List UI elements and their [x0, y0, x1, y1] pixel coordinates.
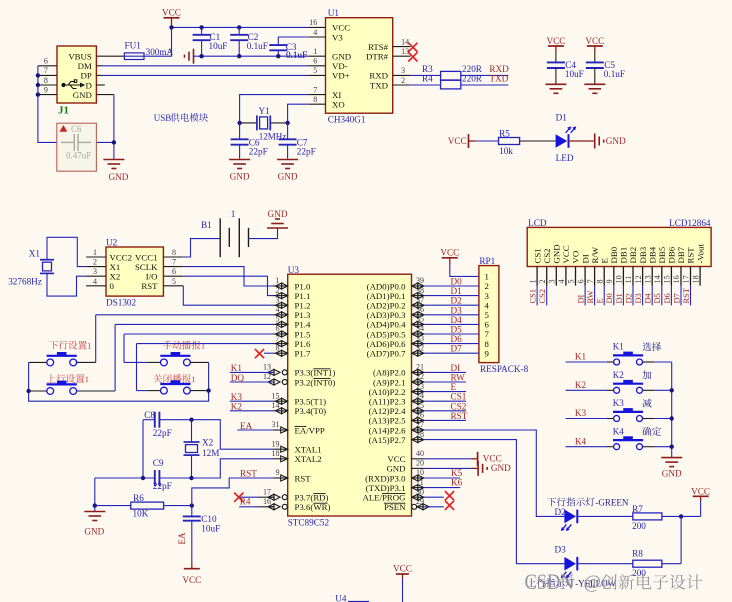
svg-text:P1.5: P1.5 [295, 329, 311, 339]
wire net DI [424, 371, 466, 373]
svg-text:10uF: 10uF [201, 524, 220, 534]
wire net CS2 (LCD pin 2) [546, 286, 548, 306]
junction pin8 [36, 83, 40, 87]
svg-text:1: 1 [87, 341, 91, 351]
svg-text:D7: D7 [451, 344, 463, 354]
junction button common left [26, 389, 30, 393]
svg-text:RW: RW [451, 373, 466, 383]
wire net EA to EA/VPP [237, 429, 273, 431]
svg-text:7: 7 [485, 329, 490, 339]
LED D1 [556, 126, 577, 147]
junction C1 bottom [199, 54, 203, 58]
svg-text:GND: GND [662, 469, 682, 479]
junction C1 top [199, 25, 203, 29]
svg-text:2: 2 [93, 258, 97, 267]
junction VCC rail / fuse [169, 25, 173, 29]
svg-text:J1: J1 [58, 105, 69, 117]
svg-text:6: 6 [313, 57, 317, 66]
resistor R4 220R [441, 80, 461, 89]
svg-text:XTAL2: XTAL2 [295, 454, 322, 464]
svg-text:P3.5(T1): P3.5(T1) [295, 397, 327, 407]
svg-text:19: 19 [272, 439, 280, 448]
switch 下行设置1 [49, 341, 87, 350]
junction K3 [670, 416, 674, 420]
svg-text:(A10)P2.2: (A10)P2.2 [369, 387, 406, 397]
svg-text:CS2: CS2 [542, 248, 552, 263]
svg-text:LCD: LCD [528, 218, 547, 228]
svg-text:21: 21 [416, 363, 424, 372]
svg-text:1: 1 [85, 374, 89, 384]
svg-text:RXD: RXD [369, 71, 388, 81]
wire net K6 [424, 487, 460, 489]
wire net D4 [424, 323, 479, 325]
capacitor C6 0.47uF (not fitted, grey box) [57, 123, 97, 171]
svg-text:33: 33 [416, 334, 424, 343]
svg-text:(RXD)P3.0: (RXD)P3.0 [365, 473, 406, 483]
svg-text:VCC: VCC [387, 454, 405, 464]
svg-text:DI: DI [577, 294, 586, 303]
label 下行指示灯-GREEN [547, 497, 594, 506]
wire P2.7 to D3 [424, 440, 564, 564]
no-connect X on P1.7 [264, 352, 274, 354]
svg-text:K4: K4 [575, 436, 587, 446]
svg-text:DI: DI [580, 254, 590, 263]
wire net D4 (LCD pin 13) [651, 286, 653, 306]
svg-text:U3: U3 [288, 265, 300, 275]
svg-text:6: 6 [485, 320, 490, 330]
svg-text:D1: D1 [615, 293, 624, 303]
svg-text:22pF: 22pF [153, 481, 172, 491]
J1 USB icon [62, 80, 84, 89]
svg-text:200: 200 [632, 521, 646, 531]
svg-text:RTS#: RTS# [368, 42, 389, 52]
svg-text:K1: K1 [231, 363, 243, 373]
svg-text:D6: D6 [663, 293, 672, 303]
power symbol VCC (pin40) [477, 452, 479, 466]
svg-text:1: 1 [313, 47, 317, 56]
svg-text:2: 2 [538, 279, 547, 283]
no-connect X on ALE/PROG [445, 491, 454, 500]
svg-text:22pF: 22pF [297, 147, 316, 157]
svg-text:36: 36 [416, 305, 424, 314]
wire net D6 (LCD pin 15) [670, 286, 672, 306]
svg-text:R3: R3 [422, 64, 433, 74]
svg-text:U2: U2 [106, 238, 118, 248]
junction R6 left / GND [93, 503, 97, 507]
wire C8 right to XTAL1 [192, 420, 274, 450]
svg-text:D0: D0 [451, 277, 463, 287]
svg-text:16: 16 [263, 497, 271, 506]
ground GND (D1) [595, 134, 604, 149]
wire TXD [410, 84, 440, 86]
svg-text:DB7: DB7 [676, 246, 686, 263]
capacitor C5 0.1uF [585, 36, 604, 46]
svg-text:37: 37 [416, 295, 424, 304]
ground GND (C7) [277, 160, 298, 169]
svg-text:GND: GND [108, 172, 128, 182]
wire key common bus to GND [671, 362, 673, 458]
wire J1 VBUS to fuse [96, 55, 124, 57]
svg-text:GND: GND [606, 136, 626, 146]
svg-text:RST: RST [141, 281, 158, 291]
svg-text:C9: C9 [153, 458, 164, 468]
wire C8 left down [142, 420, 144, 478]
svg-text:5: 5 [172, 277, 176, 286]
svg-text:1: 1 [276, 276, 280, 285]
wire P1.5 to 手动 switch [124, 333, 274, 335]
svg-text:-Vout: -Vout [695, 244, 705, 264]
svg-text:6: 6 [172, 267, 176, 276]
svg-text:LED: LED [556, 153, 574, 163]
capacitor C10 10uF [191, 506, 193, 517]
svg-text:VCC1: VCC1 [135, 252, 158, 262]
svg-text:P1.2: P1.2 [295, 301, 311, 311]
wire D3 to R8 [577, 563, 633, 565]
svg-text:R5: R5 [499, 128, 510, 138]
svg-text:20: 20 [416, 459, 424, 468]
wire GND pin20 [424, 467, 472, 469]
svg-text:8: 8 [276, 343, 280, 352]
svg-text:GND: GND [268, 209, 288, 219]
svg-text:SCLK: SCLK [135, 262, 158, 272]
svg-text:17: 17 [682, 275, 691, 283]
wire net CS1 (LCD pin 1) [536, 286, 538, 306]
svg-text:(A9)P2.1: (A9)P2.1 [373, 377, 406, 387]
svg-text:5: 5 [276, 315, 280, 324]
wire J1 GND down [96, 94, 114, 96]
svg-text:D0: D0 [605, 293, 614, 303]
svg-text:RW: RW [586, 290, 595, 303]
svg-text:VD-: VD- [332, 61, 348, 71]
crystal X1 32768Hz [40, 260, 54, 274]
switch K3 减 [566, 418, 608, 420]
wire C10 to VCC with EA label [191, 521, 193, 563]
wire P1.6 to 关闭 switch [137, 343, 274, 345]
svg-text:7: 7 [586, 279, 595, 283]
wire net D6 [424, 343, 479, 345]
svg-text:GND: GND [84, 527, 104, 537]
svg-text:(AD2)P0.2: (AD2)P0.2 [367, 301, 406, 311]
svg-text:0: 0 [110, 281, 115, 291]
svg-text:8: 8 [172, 248, 176, 257]
svg-text:C10: C10 [201, 514, 217, 524]
wire R3 out [461, 74, 509, 76]
svg-text:14: 14 [401, 37, 409, 46]
wire U2 VCC1 to B1 [183, 239, 220, 257]
svg-text:13: 13 [263, 363, 271, 372]
svg-text:(AD5)P0.5: (AD5)P0.5 [367, 329, 406, 339]
wire net D5 (LCD pin 14) [661, 286, 663, 306]
resistor R7 200 [633, 513, 662, 520]
wire VCC rail [172, 26, 309, 28]
svg-text:@: @ [584, 572, 602, 593]
svg-text:1: 1 [231, 209, 236, 219]
svg-text:(A14)P2.6: (A14)P2.6 [369, 425, 406, 435]
svg-text:TXD: TXD [489, 73, 508, 83]
no-connect X on PSEN [445, 501, 454, 510]
wire P2.6 to D2 [424, 430, 564, 516]
svg-text:VCC: VCC [585, 36, 604, 46]
resistor pack RP1 box [479, 266, 499, 363]
svg-text:0.1uF: 0.1uF [286, 50, 307, 60]
wire R6 right [164, 505, 192, 507]
svg-text:R4: R4 [240, 497, 251, 507]
wire net D7 [424, 352, 479, 354]
svg-text:C6: C6 [71, 124, 82, 134]
wire D2 to R7 [577, 515, 633, 517]
wire net D7 (LCD pin 16) [680, 286, 682, 306]
svg-text:5: 5 [313, 66, 317, 75]
svg-text:D2: D2 [451, 296, 463, 306]
wire GND row to U1 [194, 55, 309, 57]
svg-text:GND: GND [73, 90, 92, 100]
wire buttons left common [29, 361, 47, 363]
svg-text:DS1302: DS1302 [106, 298, 137, 308]
svg-text:34: 34 [416, 324, 424, 333]
svg-text:8: 8 [44, 76, 48, 85]
svg-text:DM: DM [78, 61, 92, 71]
svg-text:39: 39 [416, 276, 424, 285]
svg-text:1: 1 [201, 341, 205, 351]
svg-text:10k: 10k [499, 146, 513, 156]
wire net RW (LCD pin 7) [594, 286, 596, 306]
svg-text:26: 26 [416, 411, 424, 420]
svg-text:6: 6 [276, 324, 280, 333]
svg-text:TXD: TXD [370, 80, 388, 90]
svg-text:E: E [599, 258, 609, 263]
svg-text:3: 3 [276, 295, 280, 304]
label 上行指示灯-YELLOW [527, 578, 574, 587]
switch K4 确定 [566, 446, 608, 448]
svg-text:DB6: DB6 [667, 246, 677, 263]
svg-text:D4: D4 [644, 292, 653, 303]
ground GND (B1) [267, 219, 288, 228]
svg-text:K3: K3 [231, 392, 243, 402]
wire net D0 [424, 285, 479, 287]
power symbol VCC (top rail) [162, 8, 181, 18]
svg-text:GND: GND [230, 172, 250, 182]
svg-text:D4: D4 [451, 315, 463, 325]
svg-text:6: 6 [576, 279, 585, 283]
svg-text:31: 31 [272, 420, 280, 429]
wire J1 DM to U1 VD- [96, 65, 102, 67]
junction pin7 [36, 73, 40, 77]
svg-text:RP1: RP1 [479, 256, 495, 266]
svg-text:CS1: CS1 [532, 248, 542, 263]
svg-text:11: 11 [624, 276, 633, 284]
svg-text:27: 27 [416, 420, 424, 429]
svg-text:7: 7 [44, 66, 48, 75]
wire net DI (LCD pin 6) [584, 286, 586, 306]
wire net D0 (LCD pin 9) [613, 286, 615, 306]
svg-text:16: 16 [309, 18, 317, 27]
svg-text:V3: V3 [332, 32, 343, 42]
connector LCD LCD12864 box [527, 227, 711, 266]
wire R8 right [662, 563, 681, 565]
svg-text:4: 4 [485, 300, 490, 310]
wire R7 to VCC [662, 515, 701, 517]
svg-text:DTR#: DTR# [366, 52, 389, 62]
svg-text:11: 11 [416, 478, 424, 487]
svg-text:VO: VO [571, 251, 581, 264]
junction button common right [206, 388, 210, 392]
no-connect X [234, 493, 243, 502]
svg-text:1: 1 [528, 279, 537, 283]
svg-text:K2: K2 [575, 380, 587, 390]
svg-text:7: 7 [172, 258, 176, 267]
wire net RST [424, 419, 466, 421]
IC U3 STC89C52 box [288, 274, 412, 516]
resistor R5 10k [499, 138, 520, 145]
svg-text:(AD4)P0.4: (AD4)P0.4 [367, 320, 406, 330]
svg-text:(TXD)P3.1: (TXD)P3.1 [366, 483, 406, 493]
ground GND (C6) [229, 160, 250, 169]
svg-text:R/W: R/W [590, 246, 600, 263]
svg-text:14: 14 [653, 275, 662, 283]
svg-text:CS2: CS2 [538, 289, 547, 303]
svg-text:DP: DP [81, 71, 92, 81]
svg-text:D: D [85, 80, 91, 90]
power symbol VCC (R7) [700, 501, 702, 516]
junction XI/C6 [237, 121, 241, 125]
battery B1 [220, 218, 239, 257]
svg-text:E: E [596, 298, 605, 303]
svg-text:P3.4(T0): P3.4(T0) [295, 406, 327, 416]
no-connect X on DTR# [408, 52, 417, 61]
svg-text:VCC: VCC [332, 23, 350, 33]
svg-text:29: 29 [416, 497, 424, 506]
ground GND (keys) [661, 458, 682, 467]
svg-text:EA: EA [240, 421, 253, 431]
wire X2 bottom [191, 455, 193, 478]
svg-text:23: 23 [416, 382, 424, 391]
ground GND (pin20) [478, 461, 487, 476]
svg-text:22pF: 22pF [153, 428, 172, 438]
fuse FU1 [124, 53, 144, 60]
svg-text:RST: RST [295, 473, 312, 483]
svg-text:P1.1: P1.1 [295, 291, 311, 301]
U1 right pin stubs [393, 46, 411, 48]
svg-text:K3: K3 [613, 398, 624, 408]
wire U2 RST to P1.2 [183, 286, 273, 305]
svg-text:4: 4 [93, 277, 97, 286]
svg-text:CS2: CS2 [451, 401, 467, 411]
svg-text:10uF: 10uF [209, 41, 228, 51]
switch 关闭播报1 [153, 374, 191, 383]
svg-text:0.1uF: 0.1uF [604, 69, 625, 79]
capacitor C3 0.1uF [278, 37, 308, 45]
svg-text:DB4: DB4 [647, 246, 657, 263]
svg-text:12M: 12M [202, 448, 219, 458]
svg-text:5: 5 [567, 279, 576, 283]
U3 left pin stubs [274, 285, 288, 287]
J1 D pin stub [96, 84, 104, 86]
svg-text:DB5: DB5 [657, 246, 667, 263]
junction XO/C7 [285, 121, 289, 125]
U2 left pin stubs 1-4 [86, 256, 106, 258]
junction pin9 [36, 92, 40, 96]
wire net K2 to P3.4 [230, 410, 274, 412]
capacitor C6 22pF [239, 123, 241, 139]
junction GND / C6 [112, 140, 116, 144]
svg-text:K1: K1 [575, 352, 587, 362]
switch 手动播报1 [163, 341, 201, 350]
svg-text:VCC: VCC [182, 575, 201, 585]
svg-text:VCC: VCC [691, 486, 710, 496]
svg-text:VCC: VCC [440, 248, 459, 258]
junction C8/X2 [189, 418, 193, 422]
svg-text:RST: RST [686, 247, 696, 264]
power symbol VCC (RP1) [440, 248, 459, 258]
wire net E [424, 391, 466, 393]
wire down to R6 [94, 478, 96, 506]
svg-text:RST: RST [240, 469, 257, 479]
svg-text:D1: D1 [556, 113, 568, 123]
svg-text:VCC: VCC [448, 136, 467, 146]
svg-text:VD+: VD+ [332, 71, 350, 81]
svg-text:25: 25 [416, 401, 424, 410]
junction C2 bottom [237, 54, 241, 58]
J1 left pin stubs 6,7,8,9 [38, 65, 57, 67]
switch 上行设置1 [47, 374, 85, 383]
U4 box top edge [348, 600, 369, 602]
ground GND (R6) [84, 512, 105, 521]
svg-text:E: E [451, 382, 457, 392]
wire net CS2 [424, 410, 466, 412]
svg-text:CSDN: CSDN [525, 570, 574, 594]
svg-text:9: 9 [276, 468, 280, 477]
wire R4 out [461, 84, 509, 86]
svg-text:D5: D5 [653, 293, 662, 303]
svg-text:14: 14 [272, 401, 280, 410]
svg-text:GND: GND [278, 172, 298, 182]
svg-text:(AD6)P0.6: (AD6)P0.6 [367, 339, 406, 349]
junction X2/C9 [189, 476, 193, 480]
svg-text:D2: D2 [624, 293, 633, 303]
svg-text:22: 22 [416, 372, 424, 381]
svg-text:CS1: CS1 [529, 289, 538, 303]
svg-text:2: 2 [401, 76, 405, 85]
svg-text:GND: GND [332, 52, 351, 62]
svg-text:D5: D5 [451, 325, 463, 335]
svg-text:22pF: 22pF [249, 147, 268, 157]
wire B1 to GND [249, 228, 278, 239]
power symbol VCC (C10) [184, 568, 200, 570]
svg-text:9: 9 [605, 279, 614, 283]
svg-text:K4: K4 [613, 426, 624, 436]
svg-text:RXD: RXD [489, 64, 509, 74]
junction C9 left [141, 476, 145, 480]
svg-text:XO: XO [332, 100, 345, 110]
svg-text:1: 1 [93, 248, 97, 257]
wire P1.4 to 上行 switch [115, 323, 273, 325]
svg-text:P1.4: P1.4 [295, 320, 311, 330]
svg-text:-GREEN: -GREEN [595, 498, 628, 508]
svg-text:9: 9 [485, 348, 490, 358]
svg-text:9: 9 [44, 85, 48, 94]
wire net D3 (LCD pin 12) [642, 286, 644, 306]
capacitor C4 10uF [546, 36, 565, 46]
wire P1.3 to 下行 switch [96, 314, 274, 316]
wire J1 left bus down to C6 [38, 66, 114, 143]
svg-text:3: 3 [548, 279, 557, 283]
capacitor C2 0.1uF [238, 27, 240, 34]
svg-text:P1.6: P1.6 [295, 339, 311, 349]
svg-text:X2: X2 [202, 438, 214, 448]
svg-text:K5: K5 [451, 468, 463, 478]
U3 name overlines [313, 368, 330, 370]
svg-text:C8: C8 [144, 410, 155, 420]
